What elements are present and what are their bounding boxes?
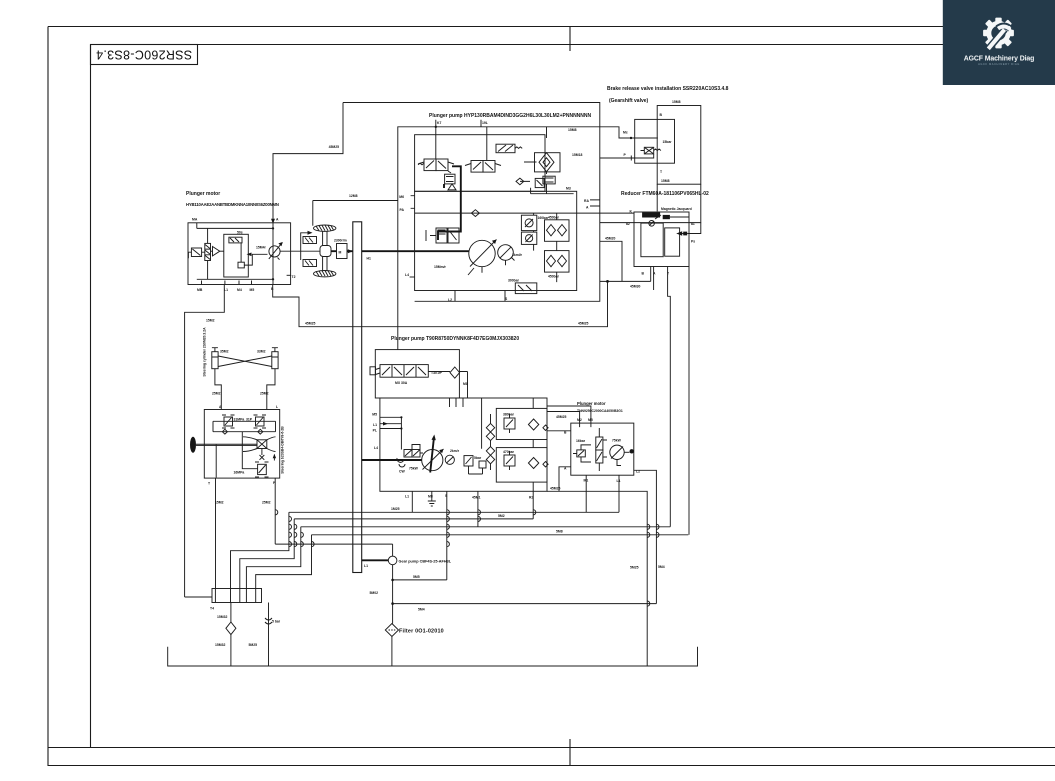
svg-text:MB: MB bbox=[197, 288, 203, 292]
svg-text:50s: 50s bbox=[237, 231, 243, 235]
svg-text:19L: 19L bbox=[482, 121, 488, 125]
svg-text:45M30: 45M30 bbox=[630, 285, 640, 289]
svg-text:M: M bbox=[339, 251, 342, 255]
svg-text:PL: PL bbox=[373, 429, 377, 433]
svg-text:Reducer FTM60A-181106PV065HL-0: Reducer FTM60A-181106PV065HL-02 bbox=[621, 191, 709, 197]
svg-text:15Mm/r: 15Mm/r bbox=[434, 265, 447, 269]
svg-text:MX 30A: MX 30A bbox=[395, 381, 408, 385]
svg-text:45M1: 45M1 bbox=[472, 496, 481, 500]
svg-text:CW: CW bbox=[399, 470, 405, 474]
svg-text:Plunger pump HYP130RBAM4DIND3G: Plunger pump HYP130RBAM4DIND3GG2H6L30L30… bbox=[429, 113, 592, 119]
svg-text:15M8: 15M8 bbox=[568, 128, 577, 132]
svg-text:Gear pump CBF4S-25-AFH3L: Gear pump CBF4S-25-AFH3L bbox=[399, 560, 452, 564]
svg-text:5M5: 5M5 bbox=[413, 575, 420, 579]
svg-text:450bar: 450bar bbox=[548, 216, 560, 220]
svg-text:T2: T2 bbox=[292, 275, 296, 279]
svg-text:Mc: Mc bbox=[623, 131, 628, 135]
svg-text:75kW: 75kW bbox=[409, 467, 419, 471]
svg-text:25M2: 25M2 bbox=[262, 501, 271, 505]
svg-text:L4: L4 bbox=[374, 446, 378, 450]
svg-text:1M25: 1M25 bbox=[391, 507, 400, 511]
svg-text:25M2: 25M2 bbox=[212, 392, 221, 396]
svg-text:2300r/m: 2300r/m bbox=[334, 239, 347, 243]
svg-text:5M4: 5M4 bbox=[418, 608, 425, 612]
svg-text:3kml/r: 3kml/r bbox=[512, 253, 523, 257]
svg-text:25M2: 25M2 bbox=[260, 392, 269, 396]
svg-text:L4: L4 bbox=[405, 273, 409, 277]
svg-text:15M32: 15M32 bbox=[215, 643, 225, 647]
svg-text:15M4r: 15M4r bbox=[256, 246, 266, 250]
svg-text:300bar: 300bar bbox=[508, 279, 520, 283]
svg-text:Ps: Ps bbox=[691, 240, 695, 244]
svg-text:15M32: 15M32 bbox=[217, 615, 227, 619]
svg-text:PA: PA bbox=[400, 208, 405, 212]
svg-text:Brake release valve installati: Brake release valve installation SSR220A… bbox=[607, 86, 729, 92]
svg-text:R2: R2 bbox=[529, 496, 533, 500]
svg-text:5M2: 5M2 bbox=[498, 514, 505, 518]
svg-text:5M25: 5M25 bbox=[630, 566, 639, 570]
svg-text:Plunger motor: Plunger motor bbox=[577, 401, 606, 406]
svg-text:AGCF MACHINERY DIAG: AGCF MACHINERY DIAG bbox=[978, 62, 1020, 66]
svg-text:Filter 0O1-02010: Filter 0O1-02010 bbox=[399, 629, 444, 635]
svg-text:SSR260C-8S3.4: SSR260C-8S3.4 bbox=[96, 48, 192, 62]
svg-text:15bar: 15bar bbox=[663, 140, 673, 144]
svg-text:5M25: 5M25 bbox=[249, 643, 258, 647]
svg-text:L2: L2 bbox=[448, 298, 452, 302]
svg-text:16bar: 16bar bbox=[576, 439, 586, 443]
svg-text:5bar: 5bar bbox=[474, 456, 482, 460]
svg-text:M2: M2 bbox=[577, 418, 582, 422]
svg-text:L1: L1 bbox=[364, 564, 368, 568]
svg-text:470bar: 470bar bbox=[503, 450, 515, 454]
svg-text:2km/r: 2km/r bbox=[450, 449, 460, 453]
svg-text:Plunger pump T90R8750DYNNK8F4D: Plunger pump T90R8750DYNNK8F4D7EG0MJX303… bbox=[391, 336, 519, 342]
svg-text:Steering cylinder 2S9M20.3.2A: Steering cylinder 2S9M20.3.2A bbox=[203, 327, 207, 377]
svg-text:M5: M5 bbox=[372, 413, 377, 417]
svg-text:15M2: 15M2 bbox=[215, 501, 224, 505]
svg-text:45M25: 45M25 bbox=[305, 322, 315, 326]
svg-text:T4: T4 bbox=[210, 607, 214, 611]
svg-text:15M2: 15M2 bbox=[206, 319, 215, 323]
svg-text:(Gearshift valve): (Gearshift valve) bbox=[609, 98, 649, 104]
svg-text:M3: M3 bbox=[566, 187, 571, 191]
svg-text:5M8: 5M8 bbox=[556, 530, 563, 534]
svg-text:AGCF Machinery Diag: AGCF Machinery Diag bbox=[964, 56, 1034, 63]
svg-text:5 bar: 5 bar bbox=[272, 620, 281, 624]
svg-text:L1: L1 bbox=[405, 495, 409, 499]
svg-text:35M2: 35M2 bbox=[220, 350, 229, 354]
svg-text:M8: M8 bbox=[428, 495, 433, 499]
svg-text:5M4: 5M4 bbox=[658, 565, 665, 569]
svg-text:16MPa: 16MPa bbox=[234, 471, 245, 475]
svg-text:380bar: 380bar bbox=[503, 413, 515, 417]
svg-text:45M25: 45M25 bbox=[329, 145, 339, 149]
svg-text:12M8: 12M8 bbox=[349, 194, 358, 198]
svg-text:15M8: 15M8 bbox=[661, 179, 670, 183]
svg-text:450bar: 450bar bbox=[548, 275, 560, 279]
svg-text:75kW: 75kW bbox=[612, 439, 622, 443]
svg-text:Magnetic Jacquard: Magnetic Jacquard bbox=[661, 207, 692, 211]
svg-text:45M25: 45M25 bbox=[578, 322, 588, 326]
svg-text:M8: M8 bbox=[463, 382, 468, 386]
svg-text:M5: M5 bbox=[588, 418, 593, 422]
svg-text:RA: RA bbox=[584, 199, 589, 203]
svg-text:Plunger motor: Plunger motor bbox=[186, 191, 220, 197]
svg-text:TNN9250C2000CA4050B3G1: TNN9250C2000CA4050B3G1 bbox=[577, 409, 623, 413]
svg-text:15M8: 15M8 bbox=[672, 100, 681, 104]
svg-text:15M18: 15M18 bbox=[572, 153, 582, 157]
svg-text:L1: L1 bbox=[373, 423, 377, 427]
svg-text:Steering b23SB4-DB6Y8-6-2B: Steering b23SB4-DB6Y8-6-2B bbox=[280, 426, 284, 474]
svg-text:L: L bbox=[276, 405, 278, 409]
svg-text:H1: H1 bbox=[367, 257, 371, 261]
svg-text:M4: M4 bbox=[237, 288, 242, 292]
svg-text:K7: K7 bbox=[437, 121, 441, 125]
svg-text:33M2: 33M2 bbox=[257, 350, 266, 354]
svg-text:45M25: 45M25 bbox=[556, 415, 566, 419]
svg-text:5M02: 5M02 bbox=[370, 591, 379, 595]
svg-text:MA: MA bbox=[192, 218, 198, 222]
svg-text:45M20: 45M20 bbox=[605, 237, 615, 241]
svg-text:M5: M5 bbox=[250, 288, 255, 292]
svg-text:HYB110AAE2AANBTBDMKNNA10NN0S6Z: HYB110AAE2AANBTBDMKNNA10NN0S6Z00NMN bbox=[186, 202, 279, 207]
svg-text:M6: M6 bbox=[399, 195, 404, 199]
